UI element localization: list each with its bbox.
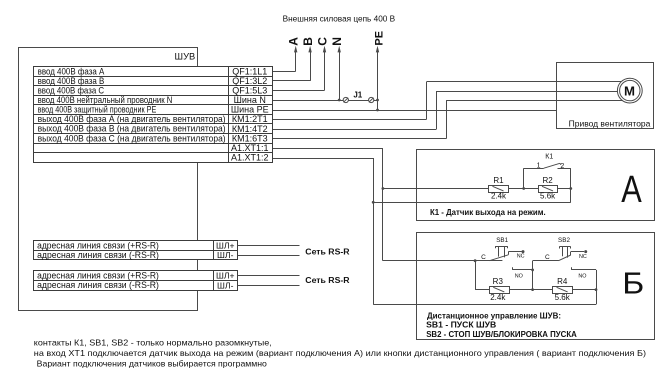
svg-text:R2: R2 [542, 176, 553, 185]
svg-text:А: А [287, 37, 301, 46]
svg-text:С: С [315, 37, 329, 46]
svg-text:NC: NC [579, 254, 587, 260]
svg-text:ШЛ+: ШЛ+ [216, 271, 235, 281]
svg-text:1: 1 [537, 163, 541, 170]
svg-text:C: C [481, 254, 486, 261]
svg-text:ввод 400В фаза В: ввод 400В фаза В [38, 76, 105, 86]
svg-text:SB2 - СТОП ШУВ/БЛОКИРОВКА ПУСК: SB2 - СТОП ШУВ/БЛОКИРОВКА ПУСКА [426, 330, 577, 339]
svg-text:Сеть RS-R: Сеть RS-R [305, 247, 350, 257]
svg-text:2: 2 [560, 163, 564, 170]
svg-text:К1: К1 [545, 154, 553, 161]
svg-text:NC: NC [517, 254, 525, 260]
svg-text:ШЛ+: ШЛ+ [216, 241, 235, 251]
svg-text:NO: NO [515, 273, 523, 279]
svg-text:Шина N: Шина N [234, 95, 266, 105]
svg-text:адресная линия связи (-RS-R): адресная линия связи (-RS-R) [37, 250, 159, 260]
svg-text:Вариант подключения датчиков в: Вариант подключения датчиков выбирается … [37, 359, 268, 369]
svg-text:ввод 400В защитный проводник Р: ввод 400В защитный проводник РЕ [38, 105, 157, 115]
svg-text:ШЛ-: ШЛ- [217, 280, 234, 290]
svg-text:NO: NO [578, 273, 586, 279]
svg-text:5.6k: 5.6k [555, 293, 571, 302]
svg-text:QF1:5L3: QF1:5L3 [232, 86, 267, 96]
svg-text:адресная линия связи (-RS-R): адресная линия связи (-RS-R) [37, 280, 159, 290]
svg-text:N: N [330, 37, 344, 46]
svg-text:QF1:3L2: QF1:3L2 [232, 76, 267, 86]
svg-text:2.4k: 2.4k [490, 293, 506, 302]
svg-text:ввод 400В фаза А: ввод 400В фаза А [38, 66, 105, 76]
svg-text:на вход ХТ1 подключается датч: на вход ХТ1 подключается датчик выхода н… [34, 348, 646, 358]
svg-text:SB2: SB2 [558, 237, 570, 244]
svg-text:ШЛ-: ШЛ- [217, 250, 234, 260]
svg-text:J1: J1 [353, 91, 362, 100]
svg-text:SB1: SB1 [496, 237, 508, 244]
svg-text:КМ1:2Т1: КМ1:2Т1 [232, 114, 268, 124]
svg-text:Сеть RS-R: Сеть RS-R [305, 275, 350, 285]
svg-text:В: В [301, 37, 315, 46]
svg-text:К1 - Датчик выхода на режим.: К1 - Датчик выхода на режим. [430, 208, 546, 217]
svg-text:5.6k: 5.6k [540, 191, 556, 200]
svg-text:SB1 - ПУСК ШУВ: SB1 - ПУСК ШУВ [426, 320, 496, 329]
svg-text:А: А [621, 169, 642, 211]
svg-text:КМ1:6Т3: КМ1:6Т3 [232, 133, 268, 143]
svg-text:ввод 400В фаза С: ввод 400В фаза С [38, 85, 105, 95]
svg-text:ввод 400В нейтральный проводни: ввод 400В нейтральный проводник N [38, 95, 173, 105]
svg-text:R1: R1 [493, 176, 504, 185]
svg-text:выход 400В фаза В (на двигател: выход 400В фаза В (на двигатель вентилят… [38, 124, 226, 134]
svg-text:контакты К1, SB1, SB2 - только: контакты К1, SB1, SB2 - только нормально… [34, 338, 272, 348]
svg-text:выход 400В фаза А (на двигател: выход 400В фаза А (на двигатель вентилят… [38, 114, 226, 124]
svg-text:А1.ХТ1:1: А1.ХТ1:1 [231, 143, 269, 153]
svg-text:2.4k: 2.4k [491, 191, 507, 200]
svg-text:Дистанционное управление ШУВ:: Дистанционное управление ШУВ: [427, 311, 561, 320]
svg-text:М: М [624, 84, 635, 99]
svg-text:КМ1:4Т2: КМ1:4Т2 [232, 124, 268, 134]
svg-text:адресная линия связи (+RS-R): адресная линия связи (+RS-R) [37, 240, 159, 250]
svg-text:А1.ХТ1:2: А1.ХТ1:2 [231, 153, 269, 163]
svg-text:выход 400В фаза С (на двигател: выход 400В фаза С (на двигатель вентилят… [38, 133, 226, 143]
svg-text:Привод вентилятора: Привод вентилятора [569, 118, 651, 128]
svg-text:Внешняя силовая цепь 400 В: Внешняя силовая цепь 400 В [283, 14, 396, 24]
svg-text:R4: R4 [557, 277, 568, 286]
svg-text:адресная линия связи (+RS-R): адресная линия связи (+RS-R) [37, 271, 159, 281]
svg-text:C: C [545, 254, 550, 261]
svg-text:Б: Б [622, 265, 644, 300]
svg-text:РЕ: РЕ [373, 31, 385, 46]
svg-text:QF1:1L1: QF1:1L1 [232, 66, 267, 76]
svg-text:ШУВ: ШУВ [175, 52, 196, 62]
svg-text:R3: R3 [493, 277, 504, 286]
svg-text:Шина РЕ: Шина РЕ [231, 105, 269, 115]
